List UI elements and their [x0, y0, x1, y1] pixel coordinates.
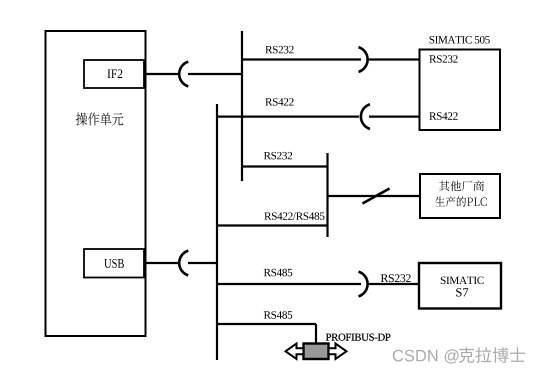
RS485 label — [264, 269, 293, 277]
connector plug RS422 — [361, 104, 370, 129]
wire RS232 top from bus 1 — [242, 58, 361, 60]
wire IF2 to connector — [144, 73, 179, 75]
operator unit label 操作单元 — [76, 113, 124, 126]
wire bus 3 to other-vendor PLC — [328, 195, 422, 197]
PROFIBUS-DP node body — [304, 344, 329, 360]
other-vendor PLC box — [420, 174, 500, 218]
IF2 label — [108, 69, 123, 78]
RS232 label at SIMATIC S7 — [381, 274, 411, 282]
bus 1 (upper vertical) — [241, 31, 243, 181]
RS232 middle label — [264, 152, 292, 160]
watermark 克拉博士 — [459, 347, 525, 363]
RS485 bottom label — [264, 311, 293, 319]
IF2 port box — [84, 60, 144, 88]
RS422/RS485 label — [264, 212, 324, 220]
RS232 pin label — [429, 55, 457, 63]
wire RS232 middle from bus 1 to bus 3 — [242, 165, 328, 167]
connector plug at USB — [179, 251, 188, 276]
watermark CSDN — [393, 349, 459, 363]
PROFIBUS-DP left arrow — [286, 344, 304, 359]
SIMATIC 505 title — [430, 36, 490, 44]
wire RS485 bottom from bus 2 — [217, 323, 316, 325]
multi-line slash mark — [363, 189, 390, 204]
SIMATIC 505 box — [420, 50, 501, 131]
SIMATIC S7 title line 1 — [441, 277, 484, 285]
connector socket RS232 top — [359, 47, 368, 72]
RS422 label — [265, 98, 293, 106]
RS422 pin label — [429, 112, 457, 120]
PROFIBUS-DP label — [326, 334, 391, 341]
RS232 top label — [265, 46, 293, 54]
wire connector to bus 2 — [188, 262, 217, 264]
wire RS422 from bus 2 — [217, 115, 359, 117]
SIMATIC S7 title line 2 — [456, 288, 468, 296]
wire to SIMATIC 505 RS232 pin — [368, 58, 421, 60]
wire RS485 from bus 2 — [217, 283, 361, 285]
connector plug at IF2 — [179, 62, 188, 87]
SIMATIC S7 box — [419, 263, 501, 309]
wire to SIMATIC S7 — [368, 283, 421, 285]
USB port box — [84, 249, 144, 278]
wire connector to bus 1 — [188, 73, 242, 75]
wire to SIMATIC 505 RS422 pin — [369, 115, 420, 117]
bus 3 (middle vertical) — [326, 153, 328, 237]
PLC box text line 1 其他厂商 — [439, 181, 484, 192]
PROFIBUS-DP right arrow — [329, 344, 347, 359]
wire USB to connector — [144, 262, 179, 264]
wire drop to PROFIBUS-DP node — [315, 324, 317, 344]
operator unit box 操作单元 — [46, 31, 146, 336]
wire RS422/RS485 from bus 2 to bus 3 — [217, 224, 328, 226]
USB label — [104, 259, 124, 268]
connector socket RS485 — [359, 272, 368, 297]
bus 2 (main vertical) — [216, 104, 218, 360]
PLC box text line 2 生产的PLC — [435, 196, 487, 207]
